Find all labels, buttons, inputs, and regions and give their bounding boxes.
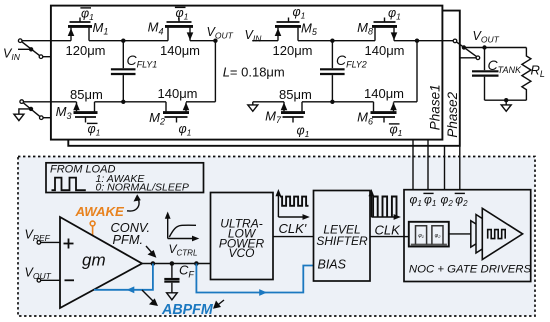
transistor M6 — [371, 102, 397, 123]
wire bottom rail M6 to corner — [394, 101, 418, 103]
wire phase gen to drivers — [448, 233, 471, 235]
wire top rail M8 to switch — [394, 40, 453, 42]
phase generator outer box — [409, 222, 449, 247]
svg-text:AWAKE: AWAKE — [75, 204, 126, 219]
transistor M3 — [73, 102, 97, 123]
wire VIN stub — [18, 48, 31, 50]
wire phase1bar to NOC — [427, 140, 429, 190]
wire tank bottom — [485, 99, 527, 101]
svg-text:VCO: VCO — [228, 246, 254, 260]
wire bottom rail M3 to M2 — [95, 101, 167, 103]
terminal VREF — [37, 241, 41, 245]
node bias — [194, 261, 199, 266]
wire top rail M5 to M8 — [298, 40, 375, 42]
driver buffer small — [471, 221, 492, 247]
VCO box — [211, 193, 274, 280]
svg-text:L= 0.18μm: L= 0.18μm — [223, 64, 285, 79]
svg-text:ABPFM: ABPFM — [161, 302, 214, 318]
wire switch S1 lower to box — [43, 56, 51, 58]
level shifter box — [314, 191, 371, 282]
NOC gate drivers box — [404, 190, 531, 282]
wire stage2 bottom rail left — [253, 101, 284, 103]
wire phase2 to NOC — [444, 146, 446, 190]
awake terminal circle — [90, 221, 95, 226]
ground stage2 input — [248, 102, 258, 112]
wire bottom rail M2 to corner — [186, 101, 215, 103]
wire VOUT rail — [464, 47, 527, 49]
wire top rail M4 to corner — [190, 40, 215, 42]
svg-text:140μm: 140μm — [364, 86, 404, 101]
phase gen baseline — [411, 244, 447, 246]
transistor M4 — [165, 18, 193, 41]
wire VCO to level shifter — [273, 236, 314, 238]
svg-text:PFM.: PFM. — [113, 232, 144, 247]
switch S2 ground input — [20, 100, 51, 120]
svg-text:BIAS: BIAS — [318, 257, 347, 271]
wire VREF to gm — [41, 241, 60, 243]
wire phase2bar to NOC — [459, 146, 461, 190]
svg-text:CLK': CLK' — [279, 221, 307, 236]
svg-text:CLK: CLK — [375, 222, 402, 237]
node tank ground — [504, 98, 508, 102]
wire bias blue — [196, 264, 313, 293]
resistor RL — [522, 48, 531, 101]
box B phase2 outline — [68, 11, 460, 146]
driver buffer mid — [476, 215, 506, 254]
arrow conv pfm to node — [146, 246, 154, 255]
wire VIN stage2 — [252, 40, 278, 42]
from-load box — [46, 163, 204, 193]
wire level shifter to NOC — [370, 236, 404, 238]
ground CF — [167, 293, 178, 300]
wire awake to gm — [92, 226, 94, 236]
wire phase1 to NOC — [412, 140, 414, 190]
svg-text:Phase1: Phase1 — [427, 84, 442, 130]
driver buffer large — [482, 208, 522, 259]
svg-text:gm: gm — [82, 251, 106, 270]
svg-text:140μm: 140μm — [160, 43, 200, 58]
waveform load pulses — [52, 178, 86, 191]
svg-text:SHIFTER: SHIFTER — [316, 234, 368, 248]
controller dashed box — [18, 157, 535, 317]
arrow abpfm left — [142, 290, 155, 303]
node CFLY2 top — [330, 39, 334, 43]
node CFLY1 top — [121, 39, 125, 43]
wire stage1 top rail left — [22, 40, 71, 42]
node CFLY2 bottom — [330, 100, 334, 104]
terminal VOUT — [37, 279, 41, 283]
op-amp gm — [60, 217, 142, 308]
transistor M8 — [372, 18, 397, 41]
node fb — [151, 261, 156, 266]
svg-text:φ2: φ2 — [435, 233, 442, 239]
waveform CLK — [369, 189, 401, 220]
svg-text:85μm: 85μm — [279, 87, 312, 102]
node stage1 out — [213, 39, 217, 43]
waveform CLKp — [276, 189, 310, 220]
node CTANK tap — [482, 45, 486, 49]
svg-text:0: NORMAL/SLEEP: 0: NORMAL/SLEEP — [96, 182, 189, 194]
svg-text:Phase2: Phase2 — [445, 91, 460, 137]
wire VOUT to gm — [41, 279, 60, 281]
wire bottom rail M7 to M6 — [302, 101, 374, 103]
minus input — [65, 279, 75, 281]
switch S3 output — [453, 39, 480, 59]
wire gm output rail — [142, 263, 211, 265]
wire stage2 output vertical — [416, 41, 418, 102]
box A phase1 outline — [51, 6, 443, 140]
capacitor CTANK — [472, 48, 499, 101]
svg-text:85μm: 85μm — [70, 87, 103, 102]
capacitor CFLY1 — [111, 41, 136, 102]
wire stage1 bottom rail left — [24, 101, 77, 103]
transistor M2 — [163, 102, 189, 123]
node CFLY1 bottom — [121, 100, 125, 104]
node stage2 out — [415, 39, 419, 43]
arrow abpfm right — [217, 300, 225, 306]
wire top rail M1 to node — [89, 40, 168, 42]
arrow to from-load box — [127, 199, 139, 212]
capacitor CF — [164, 264, 179, 293]
switch S1 input — [18, 39, 22, 43]
ground symbol at S2 — [14, 109, 31, 121]
transistor M1 — [68, 18, 92, 41]
svg-text:φ1: φ1 — [418, 233, 424, 239]
wire CLK into phase gen — [404, 236, 409, 238]
wire abpfm feedback blue — [94, 264, 153, 290]
svg-text:120μm: 120μm — [66, 43, 106, 58]
node CF — [170, 261, 175, 266]
plus input — [64, 243, 74, 245]
svg-text:120μm: 120μm — [273, 43, 313, 58]
phase gen pulse phi2 — [432, 226, 443, 245]
capacitor CFLY2 — [320, 41, 345, 102]
transistor M5 — [275, 18, 301, 41]
ground symbol tank — [501, 100, 511, 111]
transistor M7 — [281, 102, 305, 123]
svg-text:140μm: 140μm — [158, 86, 198, 101]
wire stage1 output vertical — [214, 41, 216, 102]
graph vctrl curve — [165, 212, 200, 242]
phase gen pulse phi1 — [416, 226, 427, 245]
svg-text:140μm: 140μm — [365, 43, 405, 58]
waveform in driver — [488, 230, 506, 239]
svg-text:NOC + GATE DRIVERS: NOC + GATE DRIVERS — [409, 264, 532, 276]
